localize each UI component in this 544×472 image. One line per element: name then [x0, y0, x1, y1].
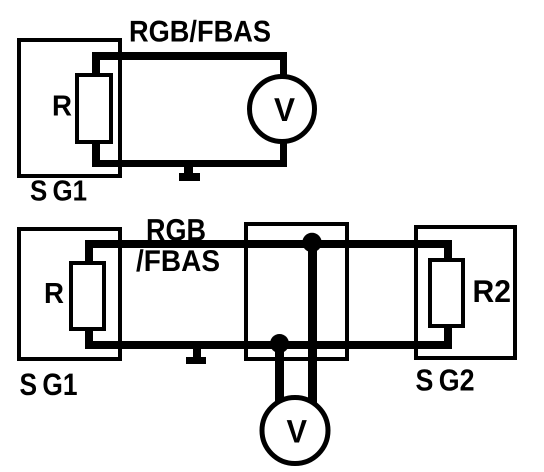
voltmeter U1 (top circuit) [250, 77, 315, 142]
wire left vertical (bottom bus to resistor R bottom, bottom circuit) [85, 327, 93, 349]
node junction dot on bottom bus [270, 334, 289, 353]
wire left vertical (resistor R top to top bus, bottom circuit) [85, 240, 93, 266]
ground (top circuit) [184, 165, 193, 175]
wire top horizontal bus (SG1 to SG2, bottom circuit) [85, 240, 452, 248]
svg-text:RGB: RGB [146, 213, 206, 248]
wire bottom horizontal return (voltmeter to R) [92, 160, 287, 167]
svg-text:V: V [274, 91, 295, 128]
svg-text:R2: R2 [473, 273, 512, 309]
svg-text:S G2: S G2 [416, 364, 475, 398]
wire vertical from voltmeter bottom [280, 141, 287, 167]
box termination unit (bottom circuit middle) [246, 224, 347, 359]
svg-text:RGB/FBAS: RGB/FBAS [129, 16, 271, 49]
wire bottom horizontal bus (SG2 back to SG1) [85, 341, 452, 349]
wire right vertical (top bus down to R2 top) [444, 240, 452, 262]
wire top horizontal bus (R to voltmeter V) [92, 52, 287, 60]
svg-text:S G1: S G1 [20, 367, 78, 402]
svg-text:S G1: S G1 [30, 176, 87, 208]
ground (bottom circuit) [193, 348, 201, 359]
svg-text:R: R [52, 91, 72, 123]
svg-text:R: R [44, 278, 64, 310]
box SG1 (bottom circuit) [19, 229, 120, 359]
wire bottom-left vertical (resistor R bottom to bottom return) [92, 140, 100, 167]
node junction dot on top bus [302, 233, 321, 252]
voltmeter U2 (bottom circuit) [262, 398, 328, 464]
wire right vertical (R2 bottom to bottom bus) [444, 324, 452, 349]
box SG2 (bottom circuit) [416, 227, 515, 358]
resistor R (bottom circuit) [71, 263, 104, 329]
wire vertical drop to voltmeter top [280, 52, 287, 77]
wire top-left vertical (resistor R top to top bus) [92, 52, 100, 78]
wire vertical from bottom junction down to voltmeter [275, 344, 284, 404]
resistor R (top circuit) [77, 75, 111, 142]
box SG1 (top circuit, signal generator outline) [19, 40, 120, 176]
resistor R2 (bottom circuit) [430, 260, 463, 326]
wire vertical from top junction down to voltmeter [308, 243, 317, 405]
svg-text:V: V [287, 414, 308, 450]
svg-text:/FBAS: /FBAS [136, 245, 220, 278]
